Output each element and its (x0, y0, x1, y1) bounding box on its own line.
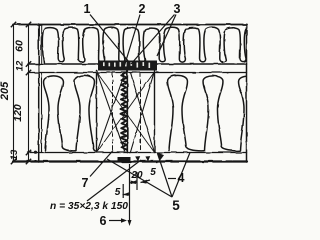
joint block right edge (154, 71, 156, 153)
svg-text:120: 120 (12, 104, 24, 122)
bottom of lower band (28, 152, 247, 154)
caulking zigzag (120, 73, 127, 150)
insulation squiggle top band (42, 27, 263, 63)
leader lines (87, 15, 190, 224)
dim 20-5 arrow line (123, 180, 151, 195)
svg-text:12: 12 (15, 60, 26, 71)
arrow axis bottom (128, 220, 132, 226)
sealing gasket (dark strip) (98, 61, 157, 71)
svg-text:6: 6 (100, 214, 107, 228)
leader 5 fan (107, 153, 190, 198)
svg-text:3: 3 (174, 2, 181, 16)
arrow dim 20 right (131, 181, 137, 185)
leader 2 (125, 15, 141, 66)
arrow dim 5 right (140, 180, 147, 184)
bottom outer line (13, 160, 247, 162)
leader 1 (90, 15, 129, 63)
long diagonals across joint (97, 73, 154, 153)
arrow leader 5 top (157, 153, 164, 161)
joint centre line (126, 71, 128, 153)
leader 3a (131, 15, 175, 65)
chain dim line (28, 25, 30, 162)
leader 6 (109, 220, 124, 222)
leader 4 dash (168, 178, 176, 180)
svg-text:4: 4 (178, 171, 185, 185)
svg-text:5: 5 (115, 187, 121, 198)
arrow on seam 2 (145, 156, 150, 161)
left wall edge inner (40, 25, 42, 63)
ticks (11, 22, 31, 164)
mortar fill at bottom seam (118, 157, 131, 163)
svg-text:20: 20 (130, 170, 143, 181)
arrow on seam 1 (135, 156, 140, 161)
svg-text:205: 205 (0, 81, 11, 101)
right wall edge (246, 24, 248, 162)
205 dim line (13, 25, 15, 162)
svg-text:13: 13 (9, 149, 20, 160)
X diagonals right panel (131, 73, 155, 153)
svg-text:1: 1 (84, 2, 91, 16)
left wall edge (38, 24, 40, 162)
svg-text:n = 35×2,3 k 150: n = 35×2,3 k 150 (50, 201, 129, 212)
arrow dim 20 left (130, 180, 137, 184)
leader 3b (157, 15, 176, 57)
dot marker left bottom (34, 151, 37, 154)
svg-text:2: 2 (139, 2, 146, 16)
svg-text:5: 5 (150, 167, 156, 178)
dashed line right panel (140, 73, 142, 152)
top of lower band (28, 72, 247, 74)
top outer line (13, 24, 247, 26)
arrow dim 5 lower (123, 192, 129, 196)
insulation squiggle lower band left (44, 75, 97, 151)
svg-text:7: 7 (82, 176, 89, 190)
arrowheads (121, 153, 164, 227)
line between top band and air gap (28, 63, 247, 65)
wall panel outline (13, 24, 247, 162)
svg-text:5: 5 (172, 198, 180, 213)
left inner vertical lower band (41, 74, 43, 153)
dim 20-5 extension tick (136, 172, 138, 190)
joint axis extension (129, 164, 131, 223)
dashed line left panel (112, 73, 114, 152)
joint block left edge (96, 71, 98, 153)
X diagonals left panel (97, 73, 125, 153)
leader 7 (90, 151, 113, 177)
small 5 tick (122, 184, 124, 198)
arrow 6 (121, 218, 127, 222)
svg-text:60: 60 (14, 40, 26, 52)
insulation squiggle lower band right (168, 75, 261, 151)
dimension lines (11, 22, 31, 164)
leader misc (87, 160, 141, 201)
